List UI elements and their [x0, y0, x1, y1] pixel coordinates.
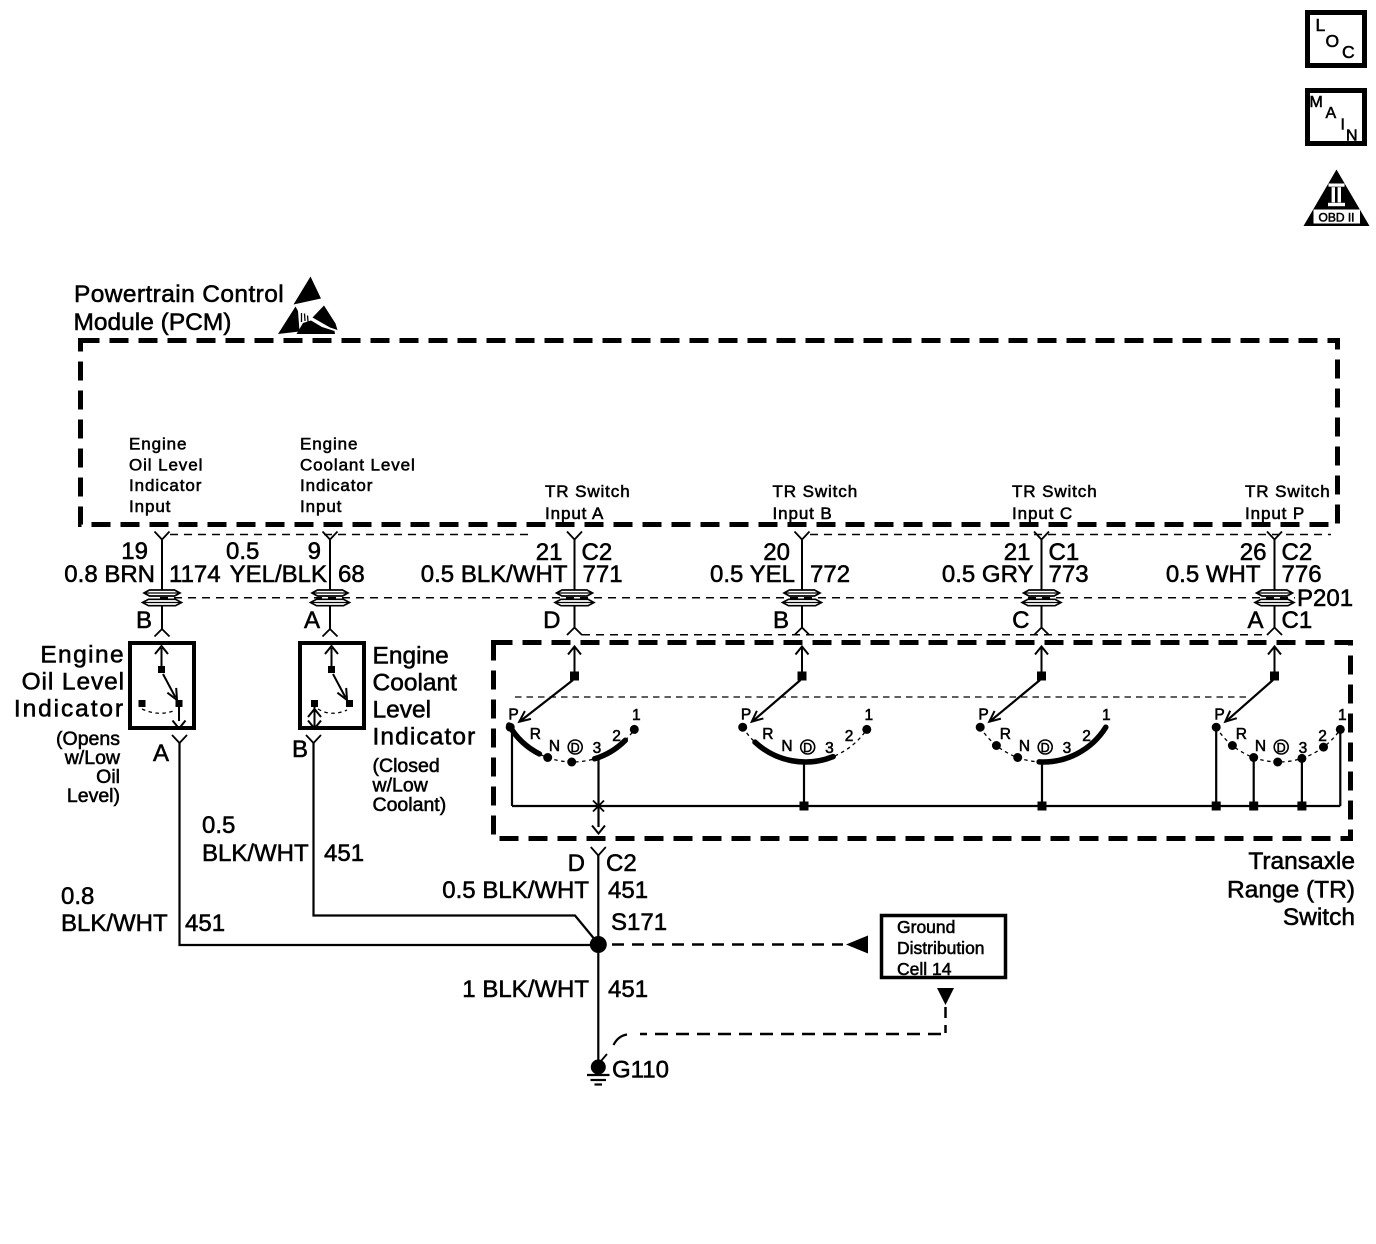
svg-text:Engine: Engine: [373, 643, 449, 670]
svg-text:Level): Level): [67, 785, 120, 807]
svg-text:TR Switch: TR Switch: [1245, 482, 1331, 501]
svg-text:B: B: [773, 607, 789, 634]
oil indicator travel dashed arc: [142, 709, 176, 713]
svg-text:Ground: Ground: [897, 917, 955, 937]
svg-text:P: P: [508, 707, 518, 724]
engine oil level indicator box: [130, 643, 194, 728]
connector P201 grommet pin21C2: [557, 590, 593, 596]
svg-text:N: N: [1019, 738, 1030, 755]
TR switch D position D contact dot: [567, 758, 576, 767]
svg-text:Indicator: Indicator: [14, 696, 125, 723]
coolant indicator arm to pin: [331, 648, 333, 666]
label Engine Coolant Level Indicator Input: [300, 435, 416, 516]
svg-text:Module (PCM): Module (PCM): [74, 309, 232, 336]
arrowhead to Ground Distribution: [846, 936, 868, 954]
svg-text:O: O: [1326, 31, 1340, 51]
TR switch D input arm: [574, 648, 576, 680]
TR switch P position P contact dot: [1212, 723, 1221, 732]
svg-text:N: N: [549, 738, 560, 755]
PCM harness connector dashed line (right segment): [810, 534, 1331, 536]
coolant indicator left contact: [311, 700, 318, 707]
TR switch P position 3 contact dot: [1297, 754, 1306, 763]
svg-text:451: 451: [608, 877, 648, 904]
TR switch C position P contact dot: [976, 723, 985, 732]
TR switch C input contact square: [1037, 672, 1046, 681]
TR switch P position N contact dot: [1249, 753, 1258, 762]
label pin 21 C1: [1004, 539, 1079, 566]
TR switch D position arc: [510, 727, 634, 762]
svg-text:P: P: [1214, 707, 1224, 724]
icon MAIN box: [1308, 91, 1365, 145]
svg-text:1: 1: [1338, 707, 1347, 724]
svg-text:D: D: [1041, 741, 1050, 755]
svg-text:0.8: 0.8: [61, 883, 94, 910]
TR switch B position P contact dot: [738, 723, 747, 732]
svg-text:2: 2: [1082, 728, 1091, 745]
TR switch C contact strip 1: [1039, 727, 1106, 762]
icon OBD II triangle: [1304, 170, 1370, 227]
coolant indicator wiper: [333, 674, 346, 698]
TR switch P drop from P contact: [1215, 730, 1217, 806]
svg-text:2: 2: [845, 728, 854, 745]
TR switch connector dashed line: [582, 634, 1266, 636]
svg-text:Distribution: Distribution: [897, 938, 985, 958]
label pin 21 C2: [536, 539, 612, 566]
TR switch B circled D indicator: [801, 740, 815, 755]
svg-text:Indicator: Indicator: [300, 476, 373, 495]
svg-text:1: 1: [864, 707, 873, 724]
TR switch P drop from N contact: [1253, 761, 1255, 806]
label Transaxle Range (TR) Switch: [1227, 848, 1355, 931]
svg-text:C: C: [1342, 42, 1355, 62]
label Engine Oil Level Indicator Input: [129, 435, 203, 516]
svg-text:Engine: Engine: [40, 642, 125, 669]
label TR Switch Input A: [545, 482, 631, 523]
PCM pin 21 C2 fork and wire: [567, 532, 582, 540]
svg-text:B: B: [136, 607, 152, 634]
label TR Switch Input C: [1012, 482, 1098, 523]
svg-text:773: 773: [1049, 561, 1089, 588]
TR switch D circled D indicator: [568, 740, 582, 755]
label Engine Coolant Level Indicator: [373, 643, 477, 751]
splice S171 junction dot: [590, 936, 607, 953]
TR switch D position labels: [508, 707, 640, 757]
svg-text:0.5 WHT: 0.5 WHT: [1166, 561, 1261, 588]
Ground Distribution Cell 14 box: [882, 916, 1006, 978]
coolant indicator top contact: [328, 666, 335, 673]
junction square N drop on bus: [1249, 802, 1258, 811]
svg-text:N: N: [1255, 738, 1266, 755]
TR switch C wire to common bus 1: [1041, 762, 1043, 806]
TR switch P position 1 contact dot: [1336, 725, 1345, 734]
TR switch P position 2 contact dot: [1319, 743, 1328, 752]
svg-text:Input A: Input A: [545, 504, 604, 523]
svg-text:1: 1: [1102, 707, 1111, 724]
svg-text:N: N: [781, 738, 792, 755]
svg-text:R: R: [1000, 726, 1011, 743]
TR switch D input contact square: [570, 672, 579, 681]
TR switch C wiper: [991, 680, 1040, 721]
svg-text:BLK/WHT: BLK/WHT: [202, 840, 309, 867]
oil indicator right contact: [176, 700, 183, 707]
svg-text:B: B: [292, 736, 308, 763]
TR switch B input arm: [801, 648, 803, 680]
svg-text:P: P: [978, 707, 988, 724]
label Powertrain Control Module (PCM): [74, 281, 285, 336]
TR switch B position arc: [743, 727, 867, 762]
wire 1 BLK/WHT 451 to ground: [597, 953, 599, 1060]
off-page arrow below Ground Distribution box: [937, 988, 954, 1005]
svg-text:D: D: [543, 607, 560, 634]
connector P201 grommet pin21C1: [1024, 590, 1060, 596]
TR switch D position N contact dot: [543, 753, 552, 762]
TR switch C position R contact dot: [992, 741, 1001, 750]
transaxle range switch dashed box: [494, 643, 1351, 839]
TR switch B position 1 contact dot: [862, 725, 871, 734]
svg-text:Transaxle: Transaxle: [1248, 848, 1355, 875]
PCM pin 19 fork and wire: [155, 532, 170, 540]
svg-text:A: A: [304, 607, 320, 634]
label pin 26 C2: [1240, 539, 1312, 566]
svg-text:P: P: [741, 707, 751, 724]
junction square P drop on bus: [1212, 802, 1221, 811]
svg-text:0.8 BRN: 0.8 BRN: [64, 561, 155, 588]
dashed ground distribution vertical: [944, 1007, 947, 1033]
junction square sw C on bus: [1038, 802, 1047, 811]
svg-text:3: 3: [593, 740, 602, 757]
svg-text:D: D: [803, 741, 812, 755]
TR switch P position R contact dot: [1228, 741, 1237, 750]
svg-text:3: 3: [825, 740, 834, 757]
coolant indicator travel dashed arc: [318, 709, 347, 713]
svg-text:0.5 BLK/WHT: 0.5 BLK/WHT: [442, 877, 589, 904]
TR switch B position labels: [741, 707, 873, 757]
TR switch B wiper: [753, 680, 800, 721]
svg-text:68: 68: [338, 561, 365, 588]
svg-text:Coolant Level: Coolant Level: [300, 455, 416, 474]
svg-text:3: 3: [1063, 740, 1072, 757]
TR switch P input arm: [1274, 648, 1276, 680]
wire 451 from oil indicator: [180, 743, 591, 945]
TR switch C position labels: [978, 707, 1110, 757]
dashed ground distribution horizontal: [640, 1033, 941, 1036]
svg-text:2: 2: [612, 728, 621, 745]
svg-text:Powertrain Control: Powertrain Control: [74, 281, 284, 308]
label wire 0.8 BLK/WHT 451: [61, 883, 225, 937]
TR switch C circled D indicator: [1038, 740, 1052, 755]
TR switch P input contact square: [1270, 672, 1279, 681]
svg-text:A: A: [1247, 607, 1263, 634]
PCM module dashed box: [81, 341, 1338, 525]
svg-text:G110: G110: [612, 1057, 669, 1084]
oil indicator output arrow: [178, 707, 180, 721]
svg-text:C: C: [1012, 607, 1029, 634]
svg-text:Level: Level: [373, 697, 432, 724]
svg-text:Switch: Switch: [1283, 904, 1355, 931]
dashed reference wire to Ground Distribution: [612, 943, 843, 946]
svg-text:TR Switch: TR Switch: [1012, 482, 1098, 501]
svg-text:0.5 GRY: 0.5 GRY: [942, 561, 1034, 588]
svg-text:BLK/WHT: BLK/WHT: [61, 910, 168, 937]
TR switch B contact strip 1: [755, 742, 833, 762]
connector P201 grommet pin20: [784, 590, 820, 596]
crossover no-connection X at D output: [593, 801, 604, 812]
label Engine Oil Level Indicator: [14, 642, 125, 723]
svg-text:2: 2: [1318, 728, 1327, 745]
svg-text:3: 3: [1299, 740, 1308, 757]
svg-text:R: R: [762, 726, 773, 743]
svg-text:451: 451: [608, 976, 648, 1003]
svg-text:1174: 1174: [169, 561, 221, 588]
TR switch D contact strip 1: [509, 725, 540, 754]
svg-text:M: M: [1310, 94, 1323, 111]
ESD sensitivity symbol: [278, 277, 338, 335]
connector P201 grommet pin9: [312, 590, 348, 596]
svg-text:R: R: [1236, 726, 1247, 743]
label (Opens w/Low Oil Level): [56, 728, 121, 807]
ground G110 symbol: [587, 1054, 610, 1085]
TR switch D contact strip 2: [595, 740, 626, 759]
svg-text:D: D: [1277, 741, 1286, 755]
svg-text:L: L: [1316, 15, 1326, 35]
TR switch P position labels: [1214, 707, 1346, 757]
svg-text:771: 771: [583, 561, 623, 588]
PCM harness connector dashed line (left segment): [170, 534, 533, 536]
svg-text:Input B: Input B: [773, 504, 833, 523]
svg-text:OBD II: OBD II: [1318, 211, 1354, 225]
svg-text:451: 451: [324, 840, 364, 867]
svg-text:C1: C1: [1282, 607, 1313, 634]
svg-text:I: I: [1341, 117, 1345, 134]
oil indicator left contact: [139, 700, 146, 707]
svg-text:Input P: Input P: [1245, 504, 1305, 523]
TR switch mechanical link dashed line: [515, 696, 1250, 698]
connector P201 grommet pin26: [1257, 590, 1293, 596]
PCM pin 21 C1 fork and wire: [1034, 532, 1049, 540]
TR switch D position P contact dot: [506, 723, 515, 732]
oil indicator arm to pin B: [161, 648, 163, 666]
TR switch P circled D indicator: [1274, 740, 1288, 755]
TR switch P position D contact dot: [1273, 758, 1282, 767]
svg-text:TR Switch: TR Switch: [545, 482, 631, 501]
dashed ground distribution curve end: [614, 1035, 628, 1046]
coolant indicator output arrow: [314, 707, 316, 726]
svg-text:Oil Level: Oil Level: [22, 669, 125, 696]
svg-text:C2: C2: [606, 850, 637, 877]
coolant indicator right contact: [346, 700, 353, 707]
icon LOC box: [1308, 13, 1365, 66]
TR switch D output drop wire: [597, 757, 599, 827]
svg-text:Engine: Engine: [300, 435, 358, 454]
svg-text:TR Switch: TR Switch: [773, 482, 859, 501]
label Ground Distribution Cell 14: [897, 917, 985, 979]
TR switch B input contact square: [798, 672, 807, 681]
TR switch P position arc: [1216, 727, 1340, 762]
svg-text:1 BLK/WHT: 1 BLK/WHT: [462, 976, 589, 1003]
label terminal A C1 TR: [1247, 607, 1312, 634]
svg-text:451: 451: [185, 910, 225, 937]
svg-text:Cell 14: Cell 14: [897, 959, 952, 979]
svg-text:N: N: [1346, 128, 1358, 145]
TR switch common bus wire: [512, 805, 1340, 807]
wire 451 from TR switch: [597, 856, 599, 938]
svg-text:YEL/BLK: YEL/BLK: [230, 561, 327, 588]
svg-text:Indicator: Indicator: [373, 724, 477, 751]
PCM pin 20 fork and wire: [795, 532, 810, 540]
svg-text:0.5: 0.5: [202, 812, 235, 839]
TR switch C input arm: [1041, 648, 1043, 680]
svg-text:Input C: Input C: [1012, 504, 1073, 523]
oil indicator wiper: [163, 674, 176, 698]
svg-text:D: D: [568, 850, 585, 877]
svg-text:Range (TR): Range (TR): [1227, 877, 1355, 904]
svg-text:A: A: [1326, 105, 1337, 122]
PCM pin 26 C2 fork and wire: [1267, 532, 1282, 540]
label TR Switch Input P: [1245, 482, 1331, 523]
svg-text:0.5 BLK/WHT: 0.5 BLK/WHT: [421, 561, 568, 588]
svg-text:Input: Input: [300, 497, 342, 516]
svg-text:R: R: [530, 726, 541, 743]
svg-text:776: 776: [1282, 561, 1322, 588]
TR switch output fork D C2: [591, 847, 606, 856]
svg-text:A: A: [153, 740, 169, 767]
label TR Switch Input B: [773, 482, 859, 523]
TR switch C position N contact dot: [1013, 753, 1022, 762]
svg-text:Oil Level: Oil Level: [129, 455, 203, 474]
TR switch C position arc: [980, 727, 1104, 762]
TR switch B wire to common bus 1: [803, 762, 805, 806]
svg-text:Engine: Engine: [129, 435, 187, 454]
label wire 1 BLK/WHT 451: [462, 976, 648, 1003]
TR switch P drop from 3 contact: [1301, 761, 1303, 806]
svg-text:Coolant: Coolant: [373, 670, 458, 697]
PCM pin 9 fork and wire: [323, 532, 338, 540]
TR switch D wiper: [521, 680, 573, 721]
oil indicator pin A fork: [172, 735, 187, 743]
svg-text:1: 1: [632, 707, 641, 724]
svg-text:0.5 YEL: 0.5 YEL: [710, 561, 795, 588]
wire 451 from coolant indicator: [314, 743, 597, 941]
svg-text:Coolant): Coolant): [373, 794, 447, 816]
svg-text:D: D: [571, 741, 580, 755]
engine coolant level indicator box: [300, 643, 364, 728]
svg-text:772: 772: [810, 561, 850, 588]
TR switch D position 1 contact dot: [630, 725, 639, 734]
coolant indicator pin B fork: [306, 735, 321, 743]
junction square 3 drop on bus: [1297, 802, 1306, 811]
connector P201 grommet pin19: [144, 590, 180, 596]
connector P201 dashed line: [160, 597, 1295, 599]
label wire 0.5 BLK/WHT 451 (coolant): [202, 812, 364, 867]
svg-text:S171: S171: [611, 909, 667, 936]
oil indicator top contact: [158, 666, 165, 673]
label wire 0.5 BLK/WHT 451 (TR): [442, 877, 648, 904]
label (Closed w/Low Coolant): [372, 755, 447, 816]
svg-text:Input: Input: [129, 497, 171, 516]
TR switch P wiper: [1227, 680, 1273, 721]
svg-text:Indicator: Indicator: [129, 476, 202, 495]
junction square sw B on bus: [800, 802, 809, 811]
TR switch P drop from 1 contact: [1339, 732, 1341, 806]
TR switch D P-contact drop wire: [511, 731, 513, 807]
